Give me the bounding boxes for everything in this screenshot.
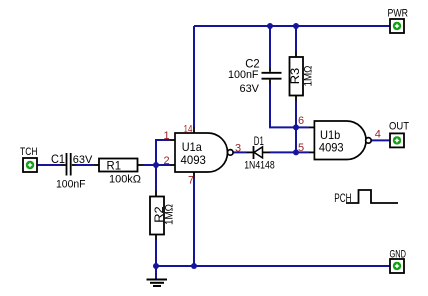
svg-text:1: 1 xyxy=(164,130,170,142)
svg-text:3: 3 xyxy=(235,143,241,155)
junction pin6 node xyxy=(293,124,299,130)
wire node to pin2 xyxy=(156,164,170,166)
junction pin7 node xyxy=(191,263,197,269)
capacitor C1 xyxy=(51,152,93,191)
connector TCH xyxy=(20,146,38,172)
wire C2 bottom to pin6 net xyxy=(270,84,296,127)
svg-text:7: 7 xyxy=(188,175,194,187)
ground symbol xyxy=(147,280,168,287)
svg-text:TCH: TCH xyxy=(20,146,38,158)
svg-text:100nF: 100nF xyxy=(228,69,259,81)
wire C2 riser top xyxy=(269,26,271,68)
wire C1 to R1 xyxy=(76,164,94,166)
svg-text:R3: R3 xyxy=(288,67,302,84)
wire R3 bottom run xyxy=(295,101,297,152)
diode D1 xyxy=(244,134,275,172)
svg-text:4093: 4093 xyxy=(181,153,207,167)
svg-text:100kΩ: 100kΩ xyxy=(109,174,141,186)
svg-text:2: 2 xyxy=(164,155,170,167)
svg-text:63V: 63V xyxy=(240,83,260,95)
junction C2 top node xyxy=(267,23,273,29)
wire top rail xyxy=(194,25,390,27)
gate U1b xyxy=(298,115,381,160)
wire R3 riser top xyxy=(295,26,297,51)
junction R3 top node xyxy=(293,23,299,29)
svg-text:U1a: U1a xyxy=(182,140,202,154)
capacitor C2 xyxy=(228,57,282,95)
junction pin5 node xyxy=(293,149,299,155)
svg-text:1MΩ: 1MΩ xyxy=(303,66,315,87)
wire bottom rail xyxy=(156,265,390,267)
svg-text:6: 6 xyxy=(298,115,304,127)
wire node to pin1 xyxy=(156,140,170,165)
svg-text:14: 14 xyxy=(184,124,193,136)
connector PWR xyxy=(388,8,409,34)
resistor R3 xyxy=(288,51,315,101)
svg-text:100nF: 100nF xyxy=(56,179,86,191)
svg-text:R1: R1 xyxy=(107,158,122,172)
svg-text:4: 4 xyxy=(375,129,381,141)
svg-text:5: 5 xyxy=(298,142,304,154)
wire TCH to C1 xyxy=(37,164,61,166)
svg-text:4093: 4093 xyxy=(319,141,344,155)
junction node R1/R2/pins xyxy=(153,162,159,168)
wire pin3 to diode xyxy=(233,151,247,153)
wire U1b output to OUT xyxy=(371,139,390,141)
wire diode to pin5 xyxy=(270,151,309,153)
svg-text:C1: C1 xyxy=(51,152,65,166)
connector GND xyxy=(390,249,407,274)
svg-text:D1: D1 xyxy=(254,134,264,148)
svg-text:1N4148: 1N4148 xyxy=(244,159,275,171)
wire ground drop xyxy=(155,266,157,279)
svg-text:GND: GND xyxy=(390,249,407,261)
resistor R1 xyxy=(94,158,143,185)
wire node down to R2 xyxy=(155,165,157,191)
svg-text:63V: 63V xyxy=(73,154,93,166)
junction ground node xyxy=(153,263,159,269)
svg-text:1MΩ: 1MΩ xyxy=(163,204,175,225)
resistor R2 xyxy=(150,191,175,241)
label PCH pulse xyxy=(334,190,398,205)
wire pin6 xyxy=(296,126,309,128)
gate U1a xyxy=(164,124,242,187)
wire pin14 riser xyxy=(193,26,195,128)
wire R2 to bottom rail xyxy=(155,240,157,266)
wire R1 to node xyxy=(143,164,156,166)
connector OUT xyxy=(389,121,409,148)
svg-text:OUT: OUT xyxy=(389,121,409,133)
wire pin7 drop xyxy=(193,178,195,267)
svg-text:PWR: PWR xyxy=(388,8,409,20)
